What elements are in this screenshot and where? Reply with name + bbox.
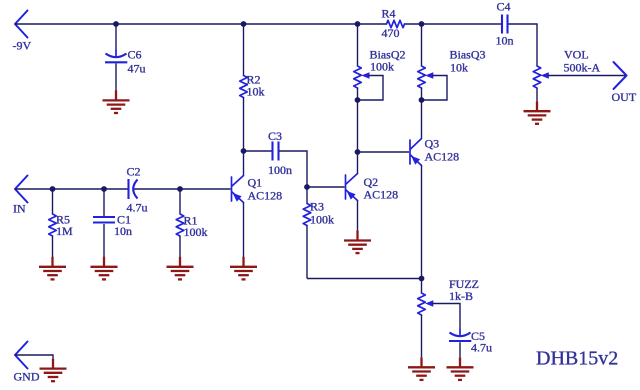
wire R1 top lead	[179, 189, 181, 214]
svg-text:GND: GND	[14, 370, 40, 384]
transistor Q3 AC128	[410, 137, 459, 166]
svg-text:C6: C6	[128, 48, 142, 62]
wire IN rail left segment	[15, 188, 128, 190]
ground symbol at GND port	[40, 359, 67, 382]
junction node C6 tap	[113, 21, 119, 27]
ground under Q1 emitter	[230, 257, 257, 280]
resistor R1 100k	[176, 214, 207, 240]
ground under VOL	[524, 101, 551, 124]
ground under C5	[447, 357, 474, 380]
svg-text:4.7u: 4.7u	[471, 341, 492, 355]
wire Q3 emitter down to bottom rail	[421, 166, 423, 279]
svg-text:100k: 100k	[370, 60, 394, 74]
wire Q2 collector up	[357, 152, 359, 174]
svg-text:500k-A: 500k-A	[564, 61, 601, 75]
capacitor C4 10n	[496, 0, 514, 48]
ground under FUZZ	[408, 357, 435, 380]
ground port GND	[14, 342, 40, 384]
wire FUZZ wiper to C5	[432, 304, 460, 330]
capacitor C5 4.7u	[449, 329, 492, 355]
resistor R4 470	[382, 7, 405, 41]
svg-text:100k: 100k	[310, 213, 334, 227]
svg-text:R4: R4	[382, 7, 396, 21]
resistor R2 10k	[240, 73, 265, 99]
svg-text:1k-B: 1k-B	[449, 289, 473, 303]
ground under C6	[103, 90, 130, 113]
transistor Q2 AC128	[346, 174, 399, 202]
svg-text:100k: 100k	[184, 225, 208, 239]
wire C4 to VOL pot top	[508, 24, 538, 66]
resistor R3 100k	[303, 200, 334, 227]
svg-text:IN: IN	[13, 202, 26, 216]
wire Q1 emitter down	[243, 203, 245, 258]
wire C1 bottom lead	[103, 224, 105, 257]
svg-text:Q3: Q3	[425, 137, 440, 151]
wire R2 top lead	[243, 24, 245, 76]
ground under R1	[167, 257, 194, 280]
svg-text:10k: 10k	[247, 85, 265, 99]
wire BiasQ3 bottom to Q3 collector	[421, 88, 423, 139]
ground under C1	[91, 257, 118, 280]
svg-text:Q1: Q1	[248, 176, 263, 190]
svg-text:C3: C3	[268, 129, 282, 143]
svg-text:AC128: AC128	[364, 188, 399, 202]
potentiometer VOL 500k-A	[533, 48, 600, 89]
wire top rail right segment	[405, 23, 503, 25]
wire VOL bottom lead	[536, 88, 538, 101]
capacitor C6	[105, 48, 146, 76]
ground under Q2 emitter	[344, 231, 371, 254]
wire C3 left lead	[244, 150, 273, 152]
junction node C1 tap	[101, 186, 107, 192]
wire C3 right lead down to Q2 base node	[279, 151, 307, 187]
wire top rail left segment	[15, 23, 387, 25]
wire BiasQ3 top lead	[421, 24, 423, 66]
junction node BiasQ3 bottom	[419, 97, 425, 103]
svg-text:DHB15v2: DHB15v2	[536, 348, 618, 370]
wire Q1 collector	[243, 151, 245, 176]
junction node BiasQ2 top tap	[355, 21, 361, 27]
transistor Q1 AC128	[232, 176, 283, 203]
wire R5 bottom lead	[52, 236, 54, 257]
capacitor C1 10n	[93, 213, 132, 239]
svg-text:100n: 100n	[268, 163, 292, 177]
svg-text:R3: R3	[310, 200, 324, 214]
svg-text:AC128: AC128	[425, 150, 460, 164]
wire IN rail right segment to Q1 base	[134, 188, 231, 190]
wire BiasQ2 wiper return loop	[358, 76, 384, 101]
junction node BiasQ2 bottom	[355, 97, 361, 103]
wire R3 top lead	[306, 187, 308, 204]
input port IN	[13, 176, 28, 216]
wire Q2 base lead	[307, 186, 345, 188]
potentiometer BiasQ2 100k	[354, 48, 406, 89]
wire BiasQ2 top lead	[357, 24, 359, 66]
wire C1 top lead	[103, 189, 105, 216]
svg-text:10n: 10n	[496, 34, 514, 48]
svg-text:10n: 10n	[114, 224, 132, 238]
wire R5 top lead	[52, 189, 54, 214]
power port -9V	[13, 11, 32, 53]
junction node BiasQ3 top tap	[419, 21, 425, 27]
capacitor C2 4.7u	[127, 165, 148, 215]
svg-text:VOL: VOL	[564, 48, 589, 62]
junction node R1 tap	[177, 186, 183, 192]
junction node Q2 collector / Q3 base	[355, 149, 361, 155]
potentiometer FUZZ 1k-B	[418, 277, 479, 315]
svg-text:BiasQ3: BiasQ3	[450, 48, 486, 62]
svg-text:AC128: AC128	[248, 189, 283, 203]
wire bottom feedback rail	[307, 278, 422, 280]
capacitor C3 100n	[268, 129, 292, 177]
ground under R5	[39, 257, 66, 280]
junction node Q1 collector / C3	[241, 148, 247, 154]
resistor R5 1M	[49, 213, 73, 239]
junction node Q2 base / R3	[304, 184, 310, 190]
wire VOL wiper to OUT	[548, 75, 626, 77]
svg-text:-9V: -9V	[13, 39, 32, 53]
wire BiasQ3 wiper return loop	[422, 76, 448, 101]
svg-text:47u: 47u	[128, 62, 146, 76]
svg-text:1M: 1M	[56, 224, 73, 238]
svg-text:C4: C4	[497, 0, 511, 14]
wire C6 top lead	[115, 24, 117, 51]
wire C5 bottom lead	[459, 342, 461, 357]
wire Q2 emitter down	[357, 201, 359, 231]
junction node Q3 emitter / FUZZ	[419, 276, 425, 282]
wire Q3 base rail	[358, 151, 410, 153]
wire R3 bottom lead	[306, 226, 308, 279]
output port OUT	[612, 62, 637, 104]
wire R2 bottom lead to Q1 collector node	[243, 98, 245, 152]
wire BiasQ2 bottom to Q2 collector node	[357, 88, 359, 152]
potentiometer BiasQ3 10k	[418, 48, 486, 89]
wire C6 bottom lead	[115, 64, 117, 91]
svg-text:C2: C2	[127, 165, 141, 179]
svg-text:OUT: OUT	[612, 90, 637, 104]
junction node R5 tap	[50, 186, 56, 192]
wire R1 bottom lead	[179, 236, 181, 257]
junction node R2 tap	[241, 21, 247, 27]
svg-text:10k: 10k	[450, 61, 468, 75]
wire FUZZ bottom lead	[421, 315, 423, 357]
wire GND port lead	[15, 355, 53, 359]
svg-text:470: 470	[382, 26, 400, 40]
